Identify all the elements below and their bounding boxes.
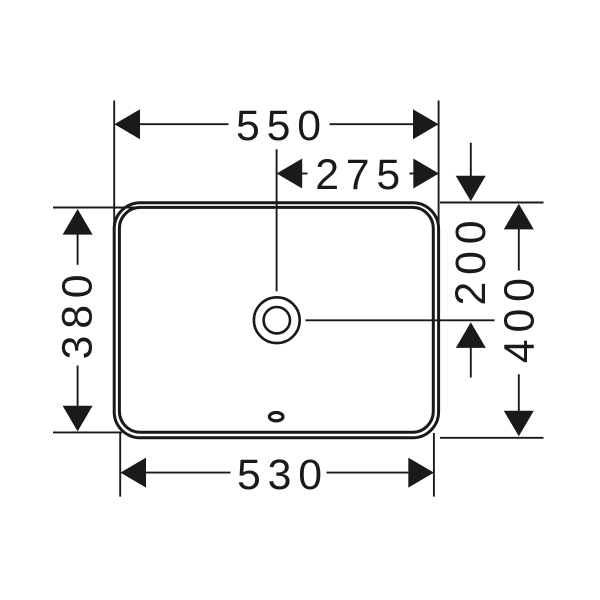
dim line 380 lower stem [77,366,79,407]
svg-text:530: 530 [237,451,329,499]
arrow 380 up [63,209,93,235]
dim line 380 upper stem [77,234,79,265]
extension line 530-left [119,432,121,496]
svg-text:550: 550 [236,102,328,150]
extension line right (550/275) [438,101,440,251]
dim line 530 right segment [327,472,409,474]
dim line 400 lower stem [518,374,520,411]
centerline vertical to drain [276,149,278,291]
arrow 200 top (pointing down) [456,176,486,202]
extension line bottom-right (400) [440,437,544,439]
svg-text:200: 200 [447,214,495,306]
arrow 550 right [413,109,439,139]
basin inner rim (530x380) [119,207,433,432]
drain inner circle [264,307,290,333]
dim line 275 right stub [410,173,414,175]
svg-text:380: 380 [53,268,101,360]
arrow 200 bottom (pointing up) [456,322,486,348]
extension line top-left (380) [53,207,160,209]
dim line 275 left stub [302,173,308,175]
centerline horizontal from drain to right [306,319,495,321]
arrow 275 right [413,159,439,189]
dim line 530 left segment [146,472,231,474]
arrow 550 left [114,109,140,139]
dim line 200 upper stem [470,143,472,177]
extension line bottom-left (380/530) [53,431,122,433]
drain outer circle [254,297,300,343]
arrow 400 bottom (pointing down) [504,411,534,437]
extension line top-right (200/400) [440,202,544,204]
overflow slot [269,413,283,421]
dim line 200 lower stem [470,348,472,378]
dim line 400 upper stem [518,229,520,271]
dim line 550 left segment [140,123,229,125]
arrow 380 down [63,406,93,432]
arrow 530 right [408,458,434,488]
svg-text:275: 275 [315,151,407,199]
extension line left (550) [113,101,115,251]
arrow 530 left [120,458,146,488]
dim line 550 right segment [330,123,414,125]
arrow 275 left [277,159,303,189]
arrow 400 top (pointing up) [504,204,534,230]
basin outer rim (550x400) [114,203,438,438]
extension line 530-right [433,433,435,497]
svg-text:400: 400 [496,271,544,363]
